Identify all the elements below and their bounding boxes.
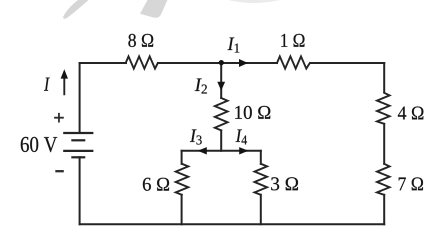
- wire bottom: [80, 223, 385, 225]
- label I: [44, 78, 50, 91]
- resistor R 10ohm: [215, 98, 228, 130]
- wire 8ohm to node: [158, 62, 221, 64]
- wire top-left to 8ohm: [80, 62, 126, 64]
- wire node to 1ohm: [221, 62, 277, 64]
- label I3: [190, 129, 202, 144]
- current arrow I4 head: [239, 147, 248, 154]
- wire 6ohm branch upper: [181, 151, 183, 164]
- resistor R 3ohm: [255, 164, 268, 195]
- label 1 ohm: [281, 34, 304, 47]
- label I4: [236, 129, 247, 144]
- current arrow I shaft: [63, 78, 65, 94]
- wire node to 10ohm: [220, 63, 222, 98]
- wire right side lower: [383, 195, 385, 225]
- wire between 4ohm and 7ohm: [383, 124, 385, 164]
- resistor R 1ohm: [277, 56, 310, 68]
- wire middle horizontal: [182, 150, 261, 152]
- label I2: [195, 79, 207, 94]
- current arrow I head: [61, 69, 68, 78]
- wire 1ohm to top-right corner: [311, 62, 385, 64]
- resistor R 8ohm: [126, 56, 158, 68]
- wire 3ohm branch upper: [260, 151, 262, 164]
- label I1: [228, 38, 240, 53]
- wire left top (corner to battery): [79, 63, 81, 133]
- battery plus sign: [54, 113, 64, 123]
- battery V1 long plate 1: [64, 132, 92, 134]
- resistor R 7ohm: [377, 164, 390, 195]
- wire 3ohm branch lower: [260, 195, 262, 225]
- label 60 V: [21, 137, 57, 152]
- label 6 ohm: [143, 178, 169, 191]
- wire right side upper: [383, 63, 385, 93]
- label 10 ohm: [235, 106, 270, 119]
- current arrow I3 head: [198, 147, 207, 154]
- node A junction dot: [219, 60, 224, 65]
- resistor R 4ohm: [377, 93, 390, 124]
- label 8 ohm: [128, 34, 153, 47]
- wire 6ohm branch lower: [181, 195, 183, 225]
- battery V1 long plate 2: [64, 150, 92, 152]
- battery minus sign: [55, 170, 64, 172]
- current arrow I2 head: [217, 82, 225, 91]
- label 4 ohm: [398, 106, 424, 119]
- resistor R 6ohm: [176, 164, 189, 195]
- label 7 ohm: [399, 177, 423, 190]
- label 3 ohm: [271, 177, 298, 190]
- wire left bottom (battery to bottom): [79, 157, 81, 224]
- battery V1 short plate 1: [72, 139, 84, 141]
- wire 10ohm to middle junction: [220, 130, 222, 150]
- current arrow I1 head: [239, 59, 248, 67]
- battery V1 short plate 2: [72, 156, 84, 158]
